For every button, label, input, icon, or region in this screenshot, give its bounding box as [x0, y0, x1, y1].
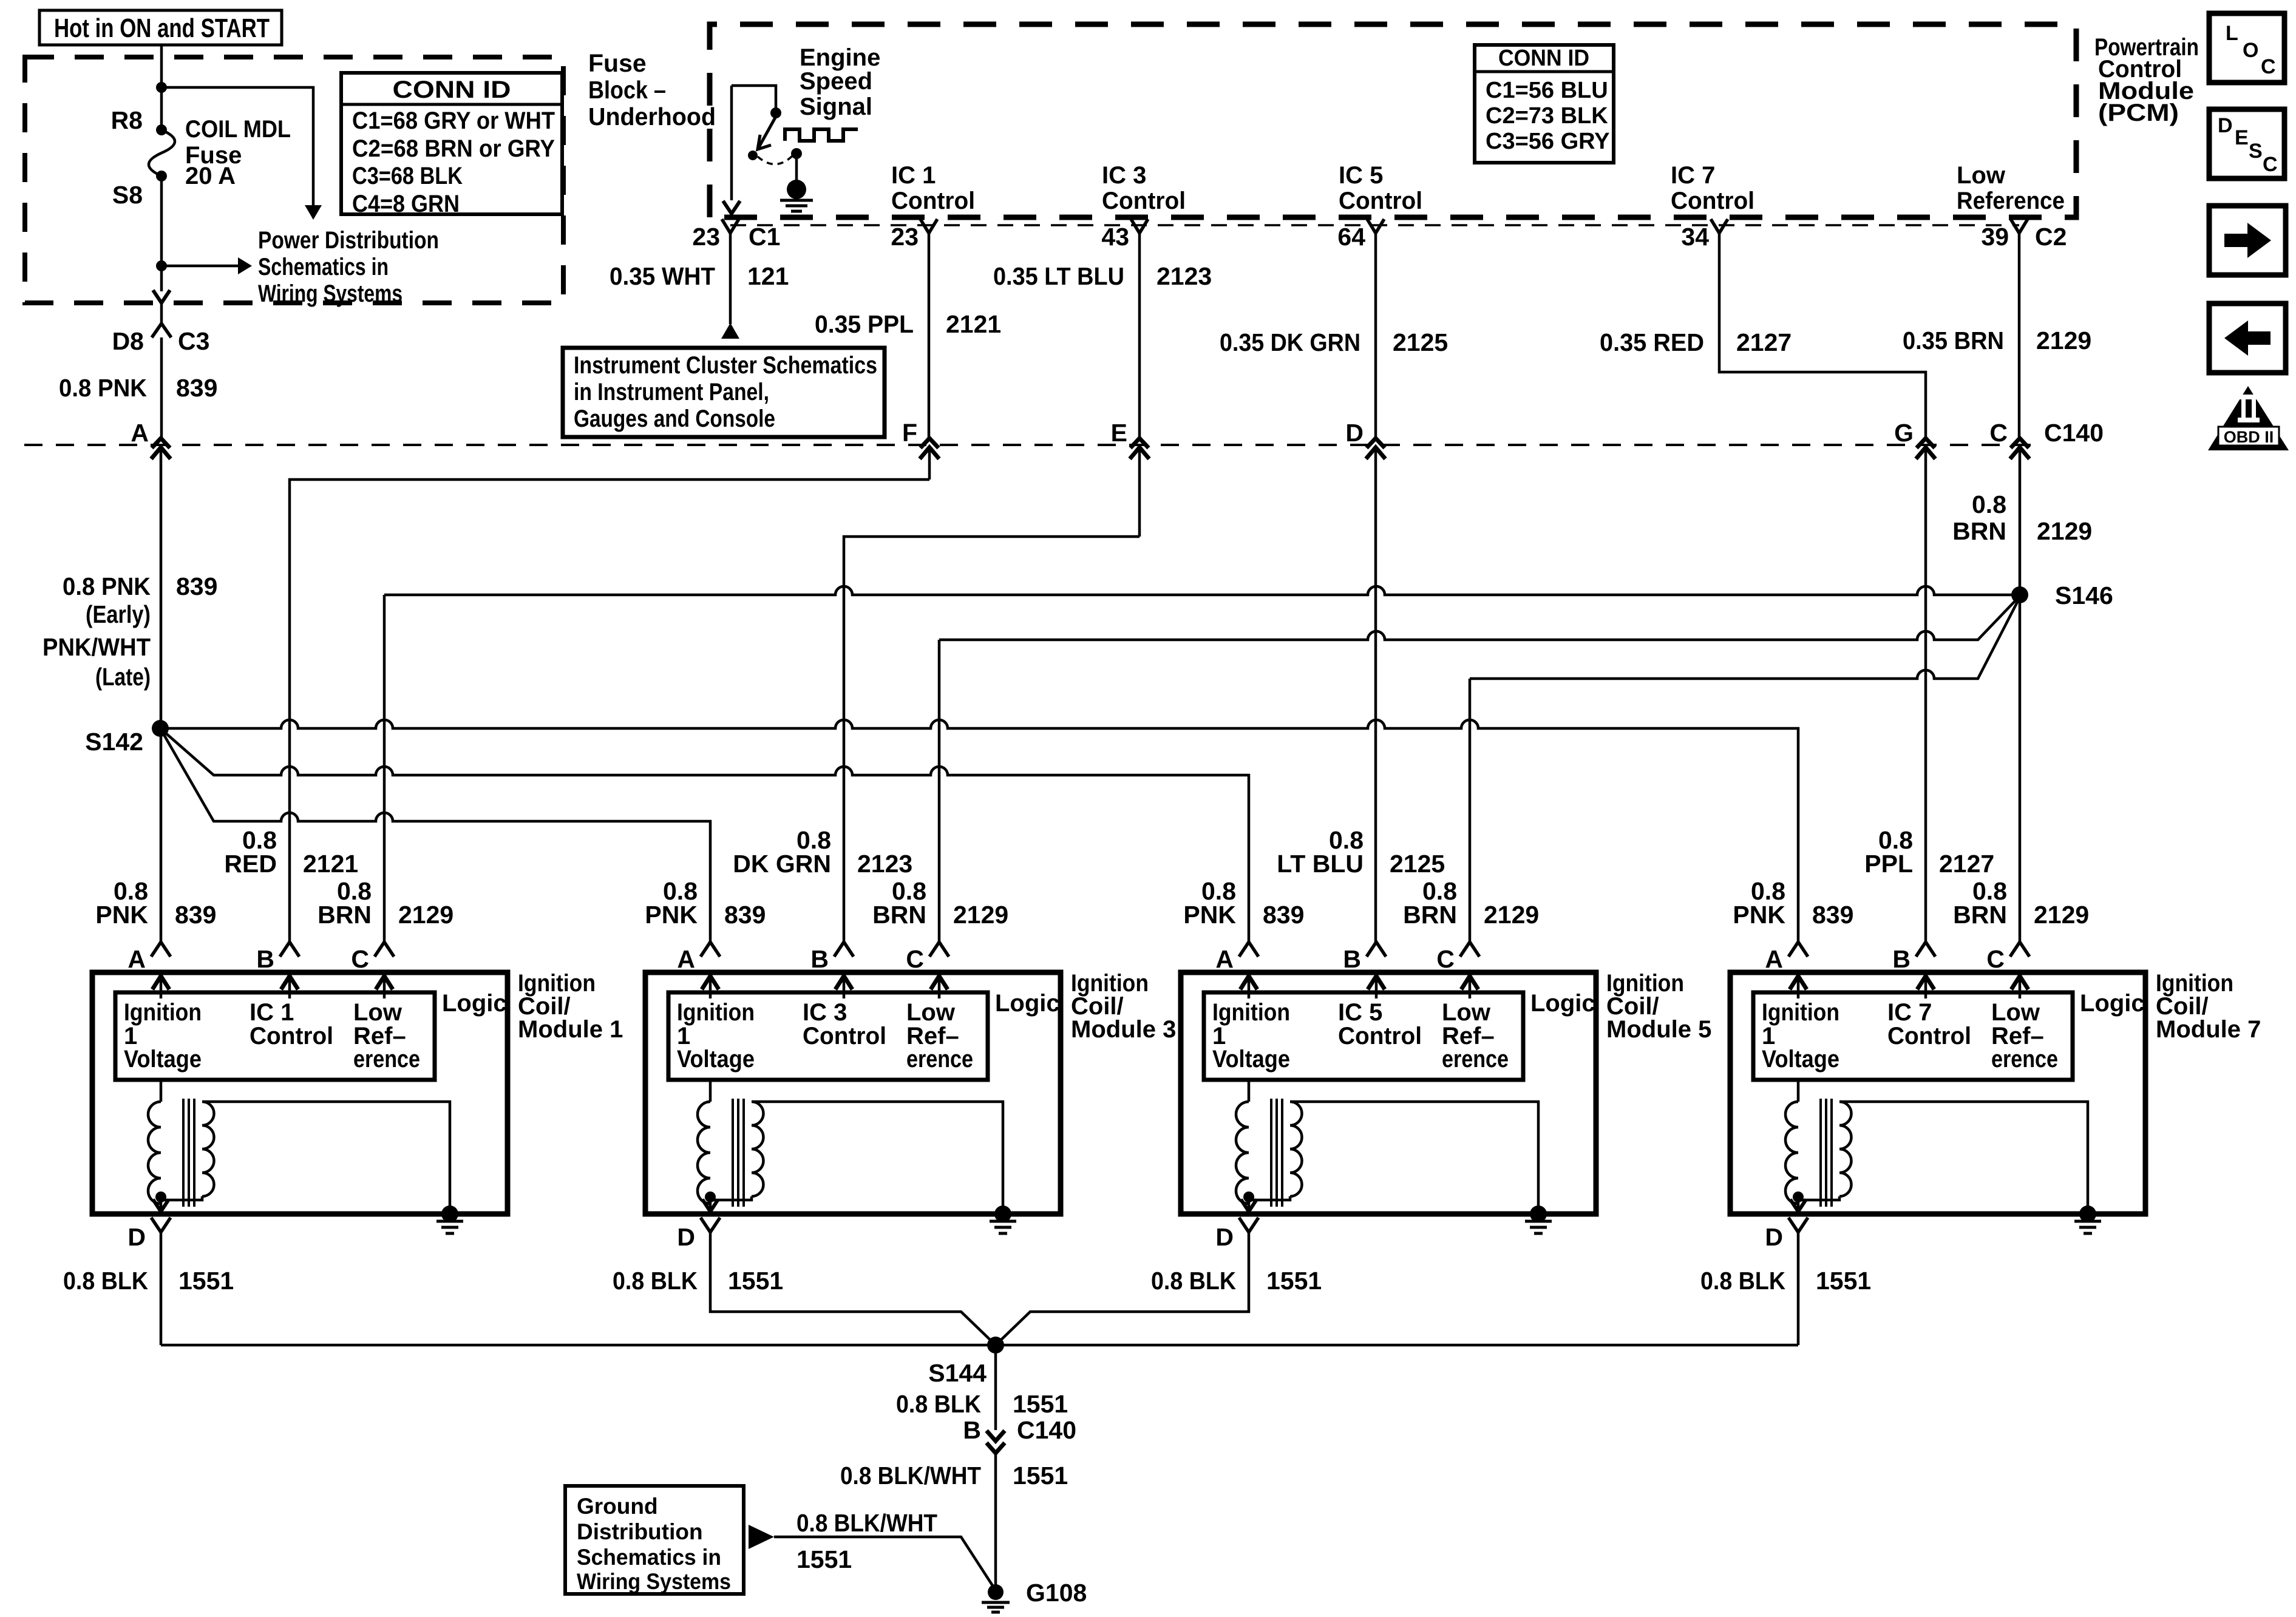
- svg-text:BRN: BRN: [1952, 517, 2006, 545]
- svg-text:(PCM): (PCM): [2098, 100, 2179, 126]
- svg-text:B: B: [256, 945, 274, 973]
- svg-text:Schematics in: Schematics in: [577, 1545, 721, 1570]
- svg-text:B: B: [810, 945, 829, 973]
- svg-text:D: D: [2218, 114, 2233, 137]
- svg-text:G: G: [1894, 419, 1914, 447]
- svg-text:BRN: BRN: [1403, 901, 1457, 929]
- svg-text:Low: Low: [1442, 999, 1491, 1026]
- svg-text:Control: Control: [1102, 188, 1186, 214]
- svg-text:C1: C1: [749, 223, 780, 251]
- svg-text:Control: Control: [803, 1023, 886, 1049]
- svg-text:S8: S8: [112, 181, 143, 209]
- svg-text:C3: C3: [178, 327, 209, 355]
- svg-text:D: D: [1345, 419, 1364, 447]
- svg-text:2129: 2129: [2034, 901, 2089, 929]
- svg-text:2129: 2129: [2036, 327, 2091, 354]
- svg-text:C: C: [1436, 945, 1455, 973]
- svg-text:Low: Low: [1991, 999, 2040, 1026]
- svg-text:Control: Control: [1887, 1023, 1971, 1049]
- svg-text:C: C: [1989, 419, 2008, 447]
- svg-text:C2=73 BLK: C2=73 BLK: [1486, 103, 1608, 129]
- svg-text:Ground: Ground: [577, 1494, 658, 1519]
- svg-text:Control: Control: [891, 188, 975, 214]
- svg-text:PNK: PNK: [1183, 901, 1236, 929]
- svg-text:C: C: [906, 945, 924, 973]
- svg-text:2129: 2129: [2037, 517, 2092, 545]
- svg-text:C4=8 GRN: C4=8 GRN: [352, 191, 460, 217]
- svg-text:839: 839: [176, 374, 217, 402]
- svg-text:IC 5: IC 5: [1338, 999, 1382, 1026]
- svg-text:Low: Low: [906, 999, 956, 1026]
- svg-text:Ignition: Ignition: [1762, 999, 1839, 1026]
- svg-text:PNK: PNK: [645, 901, 698, 929]
- svg-text:IC 5: IC 5: [1339, 162, 1383, 189]
- svg-text:(Late): (Late): [95, 663, 151, 691]
- svg-text:Ignition: Ignition: [1212, 999, 1290, 1026]
- svg-text:R8: R8: [111, 106, 143, 134]
- svg-text:COIL MDL: COIL MDL: [185, 116, 291, 143]
- svg-text:E: E: [1111, 419, 1127, 447]
- svg-text:0.8 BLK/WHT: 0.8 BLK/WHT: [796, 1509, 937, 1537]
- svg-text:D: D: [1215, 1223, 1234, 1251]
- svg-text:839: 839: [176, 572, 217, 600]
- svg-text:0.35 RED: 0.35 RED: [1600, 328, 1704, 356]
- svg-text:20 A: 20 A: [185, 163, 236, 189]
- svg-text:Voltage: Voltage: [677, 1046, 755, 1073]
- svg-text:Control: Control: [250, 1023, 333, 1049]
- svg-text:IC 3: IC 3: [803, 999, 847, 1026]
- svg-text:Voltage: Voltage: [1762, 1046, 1839, 1073]
- svg-text:Module 1: Module 1: [518, 1016, 623, 1043]
- svg-text:Control: Control: [1338, 1023, 1422, 1049]
- svg-text:in Instrument Panel,: in Instrument Panel,: [574, 379, 769, 405]
- svg-text:IC 7: IC 7: [1671, 162, 1715, 189]
- svg-text:Block –: Block –: [588, 76, 666, 104]
- svg-text:0.8: 0.8: [1972, 490, 2006, 518]
- svg-text:A: A: [677, 945, 695, 973]
- svg-text:1551: 1551: [178, 1267, 234, 1295]
- svg-text:0.35 WHT: 0.35 WHT: [610, 262, 715, 290]
- svg-text:2129: 2129: [398, 901, 453, 929]
- svg-text:Signal: Signal: [800, 93, 872, 120]
- svg-text:839: 839: [1812, 901, 1853, 929]
- svg-text:Schematics in: Schematics in: [258, 254, 389, 280]
- svg-text:S142: S142: [85, 728, 143, 756]
- svg-text:1551: 1551: [728, 1267, 783, 1295]
- svg-text:Distribution: Distribution: [577, 1519, 703, 1544]
- svg-text:Underhood: Underhood: [588, 103, 716, 131]
- svg-text:C: C: [2261, 55, 2276, 78]
- svg-text:Logic: Logic: [1530, 990, 1595, 1017]
- svg-text:0.8 BLK: 0.8 BLK: [896, 1390, 981, 1418]
- svg-text:0.8 BLK/WHT: 0.8 BLK/WHT: [840, 1462, 981, 1490]
- svg-text:B: B: [1343, 945, 1361, 973]
- svg-text:erence: erence: [1991, 1046, 2058, 1073]
- svg-text:2121: 2121: [946, 310, 1001, 338]
- svg-text:1551: 1551: [796, 1545, 852, 1573]
- svg-text:Module 5: Module 5: [1606, 1016, 1711, 1043]
- svg-text:E: E: [2235, 126, 2249, 149]
- svg-text:Low: Low: [1957, 162, 2006, 189]
- svg-text:2125: 2125: [1390, 850, 1445, 878]
- svg-text:C140: C140: [1017, 1416, 1076, 1444]
- svg-text:BRN: BRN: [1953, 901, 2007, 929]
- svg-text:B: B: [963, 1416, 981, 1444]
- svg-text:D: D: [127, 1223, 146, 1251]
- svg-text:121: 121: [747, 262, 789, 290]
- svg-text:Control: Control: [1339, 188, 1422, 214]
- svg-text:A: A: [127, 945, 146, 973]
- svg-text:C1=68 GRY or WHT: C1=68 GRY or WHT: [352, 107, 555, 134]
- svg-text:839: 839: [724, 901, 766, 929]
- svg-text:erence: erence: [1442, 1046, 1509, 1073]
- svg-text:0.8 BLK: 0.8 BLK: [1700, 1267, 1785, 1295]
- svg-text:LT BLU: LT BLU: [1277, 850, 1364, 878]
- svg-text:C140: C140: [2044, 419, 2104, 447]
- svg-text:Speed: Speed: [800, 68, 872, 95]
- svg-text:CONN ID: CONN ID: [1498, 46, 1589, 71]
- svg-text:C: C: [2263, 153, 2278, 176]
- svg-text:C3=56 GRY: C3=56 GRY: [1486, 129, 1610, 154]
- svg-text:Control: Control: [1671, 188, 1754, 214]
- svg-text:PNK: PNK: [95, 901, 148, 929]
- svg-text:839: 839: [175, 901, 216, 929]
- svg-text:Voltage: Voltage: [124, 1046, 202, 1073]
- svg-text:CONN ID: CONN ID: [393, 76, 511, 103]
- svg-text:Gauges and Console: Gauges and Console: [574, 405, 775, 432]
- svg-text:Module 3: Module 3: [1071, 1016, 1176, 1043]
- svg-text:Logic: Logic: [2080, 990, 2145, 1017]
- svg-text:Low: Low: [353, 999, 402, 1026]
- svg-text:Logic: Logic: [995, 990, 1060, 1017]
- svg-text:S144: S144: [928, 1359, 987, 1387]
- svg-text:2123: 2123: [1156, 262, 1212, 290]
- svg-text:F: F: [902, 419, 917, 447]
- svg-text:S146: S146: [2055, 581, 2113, 609]
- svg-text:A: A: [131, 419, 149, 447]
- svg-text:0.8 PNK: 0.8 PNK: [63, 572, 151, 600]
- svg-text:C1=56 BLU: C1=56 BLU: [1486, 78, 1608, 103]
- svg-text:Engine: Engine: [800, 44, 880, 71]
- svg-text:Wiring Systems: Wiring Systems: [258, 280, 402, 307]
- svg-text:(Early): (Early): [86, 600, 151, 628]
- svg-text:IC 3: IC 3: [1102, 162, 1146, 189]
- svg-text:erence: erence: [353, 1046, 420, 1073]
- svg-text:23: 23: [891, 223, 919, 251]
- svg-text:IC 1: IC 1: [891, 162, 936, 189]
- svg-text:23: 23: [692, 223, 720, 251]
- svg-text:Logic: Logic: [442, 990, 507, 1017]
- svg-text:2129: 2129: [953, 901, 1008, 929]
- svg-text:0.8 PNK: 0.8 PNK: [59, 374, 147, 402]
- svg-text:G108: G108: [1026, 1579, 1087, 1607]
- svg-text:43: 43: [1101, 223, 1129, 251]
- svg-text:BRN: BRN: [872, 901, 926, 929]
- svg-text:erence: erence: [906, 1046, 973, 1073]
- svg-text:S: S: [2249, 140, 2263, 163]
- svg-text:Fuse: Fuse: [588, 49, 647, 77]
- svg-text:Reference: Reference: [1957, 188, 2065, 214]
- svg-text:0.35 BRN: 0.35 BRN: [1903, 327, 2004, 354]
- svg-text:D: D: [677, 1223, 695, 1251]
- svg-text:1551: 1551: [1266, 1267, 1322, 1295]
- svg-text:2127: 2127: [1736, 328, 1792, 356]
- svg-text:A: A: [1765, 945, 1783, 973]
- svg-text:1551: 1551: [1013, 1462, 1068, 1490]
- svg-text:D: D: [1765, 1223, 1783, 1251]
- svg-text:Hot in ON and START: Hot in ON and START: [54, 13, 270, 43]
- svg-text:PPL: PPL: [1864, 850, 1913, 878]
- svg-text:IC 1: IC 1: [250, 999, 294, 1026]
- svg-text:Ignition: Ignition: [677, 999, 755, 1026]
- svg-text:34: 34: [1681, 223, 1709, 251]
- svg-text:Power Distribution: Power Distribution: [258, 227, 439, 254]
- svg-text:1551: 1551: [1013, 1390, 1068, 1418]
- svg-text:0.8 BLK: 0.8 BLK: [63, 1267, 148, 1295]
- svg-text:1551: 1551: [1816, 1267, 1871, 1295]
- svg-text:839: 839: [1263, 901, 1304, 929]
- svg-text:OBD II: OBD II: [2224, 428, 2274, 446]
- svg-text:2127: 2127: [1939, 850, 1994, 878]
- svg-text:0.8 BLK: 0.8 BLK: [1151, 1267, 1236, 1295]
- svg-text:BRN: BRN: [318, 901, 372, 929]
- svg-text:L: L: [2226, 22, 2238, 45]
- svg-text:2125: 2125: [1393, 328, 1448, 356]
- svg-text:PNK: PNK: [1733, 901, 1785, 929]
- svg-text:39: 39: [1981, 223, 2009, 251]
- svg-text:2123: 2123: [857, 850, 912, 878]
- svg-text:C2: C2: [2035, 223, 2067, 251]
- svg-text:DK GRN: DK GRN: [733, 850, 831, 878]
- svg-text:C2=68 BRN or GRY: C2=68 BRN or GRY: [352, 135, 555, 162]
- svg-text:0.8 BLK: 0.8 BLK: [613, 1267, 698, 1295]
- svg-text:Voltage: Voltage: [1212, 1046, 1290, 1073]
- svg-text:RED: RED: [224, 850, 277, 878]
- svg-text:0.35 PPL: 0.35 PPL: [815, 310, 914, 338]
- svg-text:C3=68 BLK: C3=68 BLK: [352, 163, 463, 189]
- svg-text:64: 64: [1337, 223, 1365, 251]
- svg-text:IC 7: IC 7: [1887, 999, 1932, 1026]
- svg-text:C: C: [1986, 945, 2005, 973]
- svg-text:2129: 2129: [1484, 901, 1539, 929]
- svg-text:Module 7: Module 7: [2156, 1016, 2261, 1043]
- svg-text:Wiring Systems: Wiring Systems: [577, 1569, 731, 1594]
- svg-text:C: C: [351, 945, 369, 973]
- svg-text:0.35 LT BLU: 0.35 LT BLU: [993, 262, 1124, 290]
- svg-text:O: O: [2243, 39, 2258, 62]
- svg-text:A: A: [1215, 945, 1234, 973]
- svg-text:Instrument Cluster Schematics: Instrument Cluster Schematics: [574, 352, 877, 379]
- svg-text:D8: D8: [112, 327, 144, 355]
- svg-text:Ignition: Ignition: [124, 999, 202, 1026]
- svg-text:2121: 2121: [303, 850, 358, 878]
- svg-text:B: B: [1892, 945, 1911, 973]
- svg-text:PNK/WHT: PNK/WHT: [42, 633, 151, 661]
- svg-text:0.35 DK GRN: 0.35 DK GRN: [1220, 328, 1360, 356]
